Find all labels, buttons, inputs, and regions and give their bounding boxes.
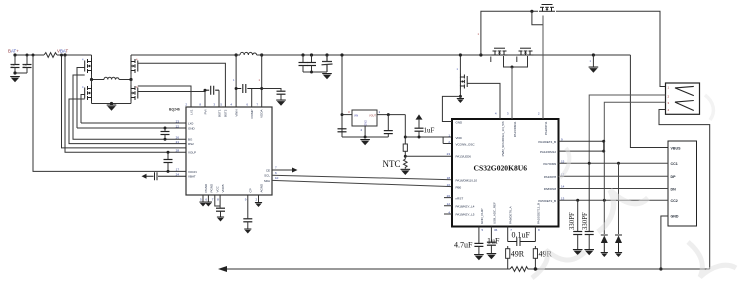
- wire U1 CE pin arrow: [272, 169, 292, 171]
- wire CC1 row: [559, 162, 669, 164]
- pin labels U1 right inside: [264, 168, 270, 182]
- wire Q2 gate to U1: [138, 63, 226, 107]
- wire 3V3 node down: [404, 115, 406, 144]
- junction dot rail at 480.9: [479, 53, 482, 56]
- svg-text:26: 26: [447, 194, 451, 198]
- wire cap bank bottoms: [303, 71, 327, 73]
- ground C6: [276, 100, 286, 106]
- capacitor C13 1uF: [490, 232, 492, 242]
- svg-text:LX0: LX0: [188, 121, 194, 125]
- resistor R2: [403, 144, 407, 151]
- svg-text:VOLP: VOLP: [188, 151, 196, 155]
- wire Q3 drain: [91, 80, 93, 86]
- svg-text:3: 3: [507, 112, 509, 116]
- capacitor C4 rail: [310, 53, 313, 56]
- wire U1 bottom pin gnd1: [202, 195, 204, 202]
- svg-text:PA2/DP11: PA2/DP11: [544, 121, 548, 135]
- pin numbers J1: [668, 85, 670, 112]
- svg-text:1: 1: [590, 59, 592, 63]
- capacitor CB2 bootstrap: [236, 84, 262, 93]
- op-amp U3 regulator body: [352, 110, 377, 126]
- capacitor C10 330PF: [577, 200, 579, 231]
- svg-text:VDD5: VDD5: [221, 184, 225, 192]
- junction dot pass link: [511, 66, 514, 69]
- svg-text:PGND: PGND: [209, 183, 213, 193]
- power arrow 1uF: [416, 114, 423, 119]
- svg-text:16: 16: [447, 183, 451, 187]
- junction dot rail gnd tap: [592, 53, 595, 56]
- pin numbers U2 top: [495, 112, 540, 116]
- wire regulator feed from rail: [341, 55, 343, 137]
- wire Q1 gate: [77, 68, 85, 129]
- wire SCL to U2: [272, 175, 452, 180]
- junction dot rail v6: [260, 53, 263, 56]
- capacitor C2: [26, 55, 28, 64]
- svg-text:CP: CP: [249, 188, 253, 192]
- svg-text:GND: GND: [671, 215, 679, 219]
- wire U1 bottom pin gnd2: [207, 195, 209, 202]
- wire to decoupling cap: [262, 89, 281, 91]
- svg-text:PA3/DP8: PA3/DP8: [544, 175, 556, 179]
- svg-text:VBAT: VBAT: [57, 49, 68, 54]
- wire Q8 gate link: [532, 11, 543, 24]
- wire bottom rail: [222, 268, 710, 270]
- transistor Q4 low-side right: [131, 85, 138, 101]
- pin labels J2: [671, 146, 682, 218]
- svg-text:7: 7: [212, 198, 214, 202]
- svg-text:5: 5: [200, 198, 202, 202]
- svg-text:6: 6: [246, 103, 248, 107]
- svg-text:26: 26: [176, 136, 180, 140]
- wire regulator input: [342, 114, 352, 116]
- svg-text:SDA: SDA: [264, 179, 270, 183]
- wire cap bottoms: [15, 72, 27, 74]
- svg-text:1: 1: [379, 110, 381, 114]
- ground C8: [244, 229, 251, 234]
- wire NTC row to U2: [405, 155, 452, 157]
- svg-text:9: 9: [245, 198, 247, 202]
- ground U1 agnd: [255, 202, 262, 207]
- junction dot CC1 diode tap: [617, 162, 620, 165]
- ground C7: [217, 217, 224, 222]
- capacitor CR1 regulator input: [338, 129, 347, 132]
- wire regulator output: [377, 114, 405, 116]
- pin numbers U1 left: [176, 119, 180, 176]
- svg-text:6: 6: [275, 171, 277, 175]
- watermark smudge 2: [598, 190, 648, 232]
- junction dot v6 cap: [260, 87, 263, 90]
- wire Q8 source to U2 top pin: [542, 16, 544, 120]
- svg-text:36: 36: [494, 228, 498, 232]
- junction dot VDD row: [404, 136, 407, 139]
- svg-text:5: 5: [220, 103, 222, 107]
- pin numbers U2 bottom: [482, 228, 541, 232]
- capacitor C9 1uF: [418, 120, 420, 128]
- wire Q2 source to phase: [130, 74, 132, 80]
- svg-text:PB0: PB0: [456, 185, 462, 189]
- junction dot: [13, 71, 16, 74]
- wire Q6 gate stub: [490, 57, 492, 63]
- svg-text:VBUS: VBUS: [671, 146, 682, 150]
- junction dot riser 5b: [60, 54, 63, 57]
- wire Q7 gate stub: [516, 57, 518, 63]
- svg-text:8: 8: [217, 198, 219, 202]
- diode D1: [603, 141, 605, 234]
- junction dot Q5 rail: [459, 53, 462, 56]
- capacitor C3 rail: [301, 53, 304, 56]
- svg-text:104: 104: [11, 64, 16, 68]
- svg-text:PWR_SOURCE3_1/4_5/6: PWR_SOURCE3_1/4_5/6: [501, 121, 505, 156]
- junction dot BAT+: [13, 53, 16, 56]
- junction dot CC2 cap tap: [576, 199, 579, 202]
- junction dot Q5 source: [459, 95, 462, 98]
- transistor Q2 high-side right: [131, 58, 138, 74]
- junction dot: [26, 54, 29, 57]
- svg-text:8: 8: [538, 228, 540, 232]
- svg-text:2: 2: [668, 94, 670, 98]
- wire top to USB VCC: [556, 11, 666, 86]
- svg-text:PA16/DM11: PA16/DM11: [513, 121, 517, 137]
- diode D2: [618, 163, 620, 234]
- junction dot regulator input: [341, 113, 344, 116]
- ground regulator: [360, 139, 370, 145]
- pin labels U1 left inside: [188, 121, 197, 178]
- junction dot CL1 bottom: [164, 138, 167, 141]
- wire U2 pin loop right top: [559, 141, 604, 151]
- svg-text:AGND: AGND: [259, 183, 263, 193]
- svg-text:VBAT: VBAT: [188, 175, 196, 179]
- connector J2 type-C body: [668, 141, 697, 226]
- svg-text:330PF: 330PF: [582, 212, 589, 230]
- svg-text:CS32G020K8U6: CS32G020K8U6: [474, 163, 528, 172]
- wire regulator ground bus: [342, 126, 388, 137]
- wire U1 top pin v2: [218, 90, 220, 107]
- svg-text:GND: GND: [456, 121, 464, 125]
- junction dot rail v4: [235, 53, 238, 56]
- svg-text:PA18/KEY_L4: PA18/KEY_L4: [456, 205, 475, 209]
- pin numbers U1 bottom: [200, 198, 258, 202]
- svg-text:PA16/DM11/L10: PA16/DM11/L10: [456, 179, 478, 183]
- wire sense riser row5 VBAT to U1: [65, 55, 186, 152]
- svg-text:1: 1: [668, 85, 670, 89]
- junction dot v4 cap: [235, 87, 238, 90]
- ground input: [10, 76, 20, 82]
- svg-text:PA9/DET8_A: PA9/DET8_A: [509, 206, 513, 224]
- svg-text:1: 1: [259, 78, 261, 82]
- svg-text:VOCN: VOCN: [188, 170, 197, 174]
- junction dot J2 gnd rail: [659, 267, 662, 270]
- svg-text:USB_ADC_REF: USB_ADC_REF: [492, 202, 496, 224]
- ground C13: [487, 253, 497, 259]
- wire DN row: [559, 188, 669, 190]
- svg-text:RS2: RS2: [188, 142, 194, 146]
- pin labels U2 bottom rotated: [480, 202, 541, 224]
- junction dot regulator gnd: [364, 136, 367, 139]
- svg-text:2: 2: [185, 103, 187, 107]
- svg-text:BST1: BST1: [217, 109, 221, 117]
- pin labels U2 right inside: [538, 140, 556, 203]
- wire Q4 source: [130, 101, 132, 104]
- capacitor C6 decouple: [277, 91, 286, 94]
- wire R2 to NTC row: [404, 151, 406, 156]
- inductor L2 on rail: [240, 52, 257, 55]
- svg-text:2: 2: [538, 112, 540, 116]
- junction dot CL2 top: [167, 151, 170, 154]
- svg-text:PA7/DM9: PA7/DM9: [543, 162, 556, 166]
- wire Q5 source down: [459, 90, 461, 97]
- junction dot CC1 cap tap: [588, 162, 591, 165]
- pin numbers U2 left: [447, 134, 451, 215]
- svg-text:PA12/DM12: PA12/DM12: [540, 150, 556, 154]
- svg-text:BQ246: BQ246: [169, 108, 180, 112]
- capacitor CL1 left of U1: [164, 128, 166, 131]
- wire U2 left pin stubs: [444, 198, 452, 214]
- pin labels U2 left inside: [456, 121, 478, 217]
- op-amp U2 MCU body CS32G020K8U6: [452, 119, 559, 227]
- svg-text:PA13/LED6: PA13/LED6: [456, 155, 472, 159]
- contact fork 1: [675, 86, 694, 95]
- svg-text:7: 7: [275, 166, 277, 170]
- junction dot phase right: [129, 78, 132, 81]
- junction dot loop bottom: [602, 150, 605, 153]
- resistor R1 input zigzag: [44, 53, 57, 58]
- svg-text:21: 21: [176, 140, 180, 144]
- wire Q2 drain to rail: [130, 55, 132, 58]
- capacitor C14 0.1uF horizontal: [508, 238, 536, 247]
- junction dot bridge bottom: [110, 102, 113, 105]
- wire bridge bottom: [92, 103, 132, 105]
- inductor L1 phase: [92, 77, 132, 79]
- capacitor C1: [14, 55, 16, 64]
- svg-text:2: 2: [256, 198, 258, 202]
- svg-text:CC1: CC1: [671, 162, 678, 166]
- svg-text:1uF: 1uF: [424, 127, 435, 135]
- transistor Q5 load switch: [460, 74, 467, 90]
- svg-text:VCC: VCC: [216, 185, 220, 192]
- wire pass link to U2 top pin: [511, 67, 513, 119]
- wire U1 bottom pins vcc pair: [215, 195, 220, 208]
- ground C12: [474, 254, 484, 260]
- ground U1 pin gnd2: [205, 202, 212, 207]
- svg-text:8: 8: [199, 103, 201, 107]
- svg-text:28: 28: [176, 149, 180, 153]
- pin numbers U2 right: [561, 137, 565, 200]
- resistor R3 49R: [506, 249, 510, 259]
- svg-text:0.1uF: 0.1uF: [512, 231, 531, 240]
- svg-text:10: 10: [275, 176, 279, 180]
- svg-text:22: 22: [176, 124, 180, 128]
- svg-text:7: 7: [256, 103, 258, 107]
- wire Q3 gate: [81, 95, 85, 124]
- transistor Q3 low-side left: [85, 85, 92, 101]
- svg-text:3: 3: [348, 110, 350, 114]
- svg-text:PA10/DET12_B: PA10/DET12_B: [536, 203, 540, 224]
- wire Q4 drain: [130, 80, 132, 86]
- wire Q6 Q7 source link: [504, 56, 528, 67]
- capacitor C8: [243, 219, 252, 222]
- wire U2 bottom pin stubs: [479, 227, 536, 242]
- junction dot VBAT: [63, 53, 66, 56]
- wire U1 top pin v4 from rail: [235, 55, 237, 107]
- svg-text:4: 4: [668, 108, 670, 112]
- ground C10: [573, 249, 583, 255]
- pin labels U1 bottom rotated: [204, 183, 264, 193]
- wire main rail right section: [131, 54, 630, 56]
- svg-text:GND: GND: [365, 120, 368, 126]
- wire sense riser row4 to U1: [69, 99, 186, 144]
- svg-text:4: 4: [82, 58, 84, 62]
- thermistor NTC element: [404, 156, 408, 169]
- wire Q1 source to phase: [91, 74, 93, 80]
- wire U1 top pin v6 from rail: [261, 55, 263, 107]
- watermark smudge 4: [688, 242, 736, 277]
- wire J1 GND route: [659, 110, 710, 270]
- pin numbers U1 top: [185, 103, 258, 107]
- wire gate riser row2 to U1: [77, 127, 186, 129]
- svg-text:VOUT: VOUT: [369, 115, 376, 118]
- wire CC2 row: [559, 199, 669, 201]
- junction dot Q8 gate node: [530, 10, 533, 13]
- svg-text:BST2: BST2: [224, 109, 228, 117]
- wire Q5 drain to rail: [459, 55, 461, 74]
- svg-text:PGND: PGND: [204, 183, 208, 193]
- wire VBUS drop to J2: [630, 55, 668, 148]
- svg-text:COMP: COMP: [250, 110, 254, 119]
- wire sense riser row3 to U1: [73, 75, 186, 139]
- svg-text:BAT+: BAT+: [8, 49, 19, 54]
- svg-text:3: 3: [213, 103, 215, 107]
- svg-text:23: 23: [447, 152, 451, 156]
- wire U1 bottom pin agnd: [258, 195, 260, 202]
- junction dot rail regulator: [340, 53, 343, 56]
- svg-text:SCL: SCL: [264, 174, 270, 178]
- wire Q4 gate to U1: [138, 91, 205, 93]
- junction dot loop top: [602, 140, 605, 143]
- svg-text:1: 1: [478, 32, 480, 36]
- svg-text:LX1: LX1: [189, 109, 193, 115]
- svg-text:330PF: 330PF: [569, 212, 576, 230]
- wire Q5 source to U2 GND pin: [442, 96, 460, 121]
- svg-text:2: 2: [361, 128, 363, 132]
- junction dot phase left: [90, 78, 93, 81]
- capacitor C7: [216, 208, 225, 211]
- svg-text:PA19/KEY_L5: PA19/KEY_L5: [456, 213, 475, 217]
- wire J2 GND to bottom rail: [661, 216, 668, 269]
- wire BAT+ sense riser row6 to U1: [33, 55, 186, 171]
- wire U1 VBAT row with cap: [147, 172, 187, 180]
- svg-text:104: 104: [23, 64, 28, 68]
- junction dot CL2 bottom: [167, 170, 170, 173]
- transistor Q1 high-side left: [85, 58, 92, 74]
- ground cap bank: [322, 73, 332, 79]
- wire riser to top wire: [481, 11, 538, 55]
- wire J1 DP to drop: [604, 102, 665, 141]
- ground NTC: [401, 169, 411, 175]
- wire Q3 source: [91, 101, 93, 104]
- transistor Q8 top switch: [539, 5, 555, 12]
- resistor R5 zigzag bottom: [510, 267, 530, 272]
- junction dot v1: [204, 89, 207, 92]
- wire VDD row to U2: [405, 137, 452, 144]
- capacitor CB1 bootstrap: [205, 86, 219, 95]
- svg-text:24: 24: [176, 173, 180, 177]
- svg-text:GND: GND: [188, 126, 196, 130]
- ground D2: [615, 252, 622, 257]
- wire J1 DM to drop: [589, 95, 665, 163]
- svg-text:1: 1: [457, 67, 459, 71]
- wire loop vertical: [603, 141, 605, 151]
- junction dot cap bank: [310, 71, 313, 74]
- wire Q5 gate to U2 top pin: [467, 83, 500, 119]
- wire gate riser row1 to U1: [81, 122, 186, 124]
- wire U1 bottom pin cp: [247, 195, 249, 218]
- junction dot NTC row: [404, 155, 407, 158]
- svg-text:NTC: NTC: [383, 159, 401, 169]
- svg-text:CE: CE: [266, 168, 270, 172]
- svg-text:CC2: CC2: [671, 199, 678, 203]
- svg-text:PA4/DET4_B: PA4/DET4_B: [538, 140, 556, 144]
- svg-text:4: 4: [495, 112, 497, 116]
- svg-text:5: 5: [482, 228, 484, 232]
- svg-text:VCONN_OSC: VCONN_OSC: [456, 142, 476, 146]
- wire input rail BAT+: [15, 54, 92, 56]
- resistor R4 49R: [533, 249, 537, 259]
- pin numbers U1 right: [275, 166, 279, 181]
- wire SDA to U2: [272, 180, 452, 186]
- watermark smudge 3: [560, 148, 569, 178]
- junction dot regulator output: [387, 113, 390, 116]
- arrow CE right: [292, 168, 298, 173]
- svg-text:6: 6: [205, 198, 207, 202]
- ground Q5: [457, 98, 464, 103]
- svg-text:17: 17: [176, 168, 180, 172]
- svg-text:nRST: nRST: [456, 196, 464, 200]
- junction dot bottom rail: [534, 267, 537, 270]
- pin labels U1 top rotated: [189, 109, 263, 118]
- capacitor CL2 left of U1: [167, 152, 169, 159]
- svg-text:4: 4: [230, 103, 232, 107]
- arrow bottom rail left: [218, 266, 227, 272]
- svg-text:49R: 49R: [511, 250, 525, 259]
- svg-text:PA5/DET2_B: PA5/DET2_B: [538, 199, 556, 203]
- svg-text:3: 3: [668, 101, 670, 105]
- watermark smudge 1: [532, 250, 585, 278]
- capacitor CR2 regulator output: [387, 115, 389, 131]
- op-amp U1 charger IC body: [186, 107, 272, 195]
- capacitor C11 330PF: [588, 163, 590, 231]
- ground rail tap: [589, 67, 599, 73]
- junction dot C9: [418, 136, 421, 139]
- capacitor C5 polarized rail: [325, 53, 328, 56]
- capacitor C12 4.7uF: [478, 232, 480, 243]
- svg-text:PA8/DN8: PA8/DN8: [544, 187, 557, 191]
- svg-text:12: 12: [447, 202, 451, 206]
- svg-text:23: 23: [176, 119, 180, 123]
- wire U1 top pin v5: [251, 89, 253, 108]
- transistor Q6 pass left: [492, 48, 508, 55]
- wire gnd tap: [592, 55, 594, 67]
- svg-text:DN: DN: [671, 187, 677, 191]
- contact fork 2: [675, 101, 694, 111]
- svg-text:VINN: VINN: [234, 110, 238, 117]
- svg-text:1: 1: [233, 78, 235, 82]
- wire Q1 drain to rail: [91, 55, 93, 58]
- ground C11: [584, 249, 594, 255]
- svg-text:18: 18: [447, 176, 451, 180]
- transistor Q7 pass right: [518, 48, 534, 55]
- svg-text:DP: DP: [671, 175, 677, 179]
- junction dot: [32, 54, 35, 57]
